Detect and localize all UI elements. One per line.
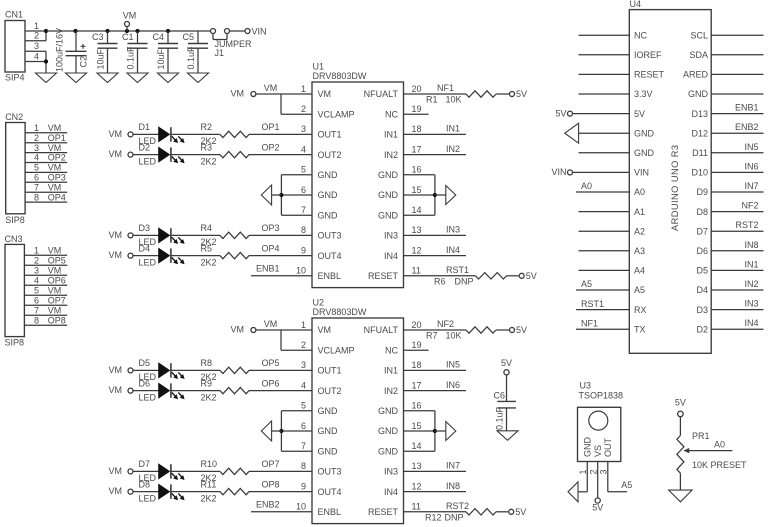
svg-text:2K2: 2K2 (201, 156, 217, 166)
svg-text:GND: GND (318, 190, 339, 200)
svg-text:NF1: NF1 (437, 83, 454, 93)
svg-text:R9: R9 (201, 378, 213, 388)
svg-text:ENBL: ENBL (318, 271, 342, 281)
svg-text:5V: 5V (526, 271, 537, 281)
svg-text:7: 7 (34, 182, 39, 192)
svg-text:D5: D5 (139, 358, 151, 368)
svg-text:OUT3: OUT3 (318, 231, 342, 241)
svg-text:D8: D8 (139, 479, 151, 489)
svg-text:GND: GND (688, 89, 709, 99)
svg-text:1: 1 (34, 246, 39, 256)
svg-text:VIN: VIN (252, 26, 267, 36)
svg-text:NC: NC (385, 109, 398, 119)
svg-text:NF2: NF2 (741, 201, 758, 211)
svg-text:A5: A5 (634, 285, 645, 295)
svg-text:8: 8 (34, 192, 39, 202)
svg-text:OP8: OP8 (48, 316, 66, 326)
svg-text:1: 1 (578, 469, 588, 474)
svg-text:RESET: RESET (368, 271, 399, 281)
svg-text:OP1: OP1 (261, 122, 279, 132)
svg-text:IN5: IN5 (744, 142, 758, 152)
svg-text:A5: A5 (621, 480, 632, 490)
svg-text:D3: D3 (139, 223, 151, 233)
svg-text:0.1uF: 0.1uF (495, 406, 505, 430)
svg-text:10: 10 (296, 502, 306, 512)
svg-text:VM: VM (48, 182, 62, 192)
svg-text:D2: D2 (139, 142, 151, 152)
svg-text:A2: A2 (634, 226, 645, 236)
svg-text:NC: NC (634, 30, 647, 40)
svg-text:OP6: OP6 (48, 276, 66, 286)
svg-text:2: 2 (34, 31, 39, 41)
svg-text:SCL: SCL (690, 30, 708, 40)
svg-text:OUT1: OUT1 (318, 130, 342, 140)
svg-text:12: 12 (412, 481, 422, 491)
svg-text:DNP: DNP (444, 512, 463, 522)
svg-text:R4: R4 (201, 223, 213, 233)
svg-text:1: 1 (34, 21, 39, 31)
svg-text:RST2: RST2 (446, 501, 469, 511)
svg-text:LED: LED (139, 156, 157, 166)
svg-text:OUT4: OUT4 (318, 487, 342, 497)
svg-text:D13: D13 (691, 109, 708, 119)
svg-text:R6: R6 (434, 276, 446, 286)
svg-text:CN1: CN1 (5, 10, 23, 20)
svg-text:C2: C2 (79, 56, 89, 68)
svg-text:C6: C6 (494, 390, 506, 400)
svg-text:GND: GND (378, 426, 399, 436)
svg-text:D7: D7 (139, 459, 151, 469)
svg-text:VM: VM (123, 10, 137, 20)
svg-text:IN4: IN4 (744, 318, 758, 328)
svg-text:LED: LED (139, 392, 157, 402)
svg-text:2K2: 2K2 (201, 392, 217, 402)
svg-text:4: 4 (34, 276, 39, 286)
svg-text:5V: 5V (501, 358, 512, 368)
svg-text:VM: VM (48, 123, 62, 133)
svg-text:5: 5 (301, 401, 306, 411)
svg-text:A0: A0 (581, 181, 592, 191)
svg-text:VM: VM (109, 149, 123, 159)
svg-text:VM: VM (231, 89, 245, 99)
svg-text:ENB2: ENB2 (256, 500, 280, 510)
svg-text:D4: D4 (696, 285, 708, 295)
svg-text:3: 3 (34, 41, 39, 51)
svg-text:4: 4 (301, 144, 306, 154)
svg-text:OP7: OP7 (261, 459, 279, 469)
svg-text:OUT1: OUT1 (318, 366, 342, 376)
svg-text:19: 19 (412, 104, 422, 114)
svg-text:IN2: IN2 (384, 150, 398, 160)
svg-text:4: 4 (34, 51, 39, 61)
svg-text:0.1uF: 0.1uF (186, 46, 196, 70)
svg-text:18: 18 (412, 360, 422, 370)
svg-text:NFUALT: NFUALT (364, 325, 399, 335)
svg-text:GND: GND (378, 406, 399, 416)
svg-text:5V: 5V (634, 109, 645, 119)
svg-text:GND: GND (318, 210, 339, 220)
svg-text:ENB1: ENB1 (256, 264, 280, 274)
svg-text:5V: 5V (515, 507, 526, 517)
svg-text:IN3: IN3 (384, 231, 398, 241)
svg-text:SIP8: SIP8 (5, 338, 25, 348)
svg-text:D2: D2 (696, 324, 708, 334)
svg-text:TSOP1838: TSOP1838 (579, 391, 624, 401)
svg-text:SIP8: SIP8 (5, 215, 25, 225)
svg-text:0.1uF: 0.1uF (125, 46, 135, 70)
svg-text:20: 20 (412, 320, 422, 330)
svg-text:VM: VM (264, 83, 278, 93)
svg-text:GND: GND (634, 148, 655, 158)
svg-text:OUT2: OUT2 (318, 150, 342, 160)
svg-text:4: 4 (301, 380, 306, 390)
svg-text:14: 14 (412, 205, 422, 215)
svg-text:VM: VM (109, 365, 123, 375)
svg-text:11: 11 (412, 502, 421, 512)
svg-text:5V: 5V (592, 503, 603, 513)
svg-text:D10: D10 (691, 168, 708, 178)
svg-text:R11: R11 (201, 479, 217, 489)
svg-text:9: 9 (301, 245, 306, 255)
svg-text:7: 7 (301, 441, 306, 451)
svg-text:D11: D11 (692, 148, 708, 158)
svg-text:11: 11 (412, 266, 421, 276)
svg-text:IN8: IN8 (744, 240, 758, 250)
svg-text:D1: D1 (139, 122, 151, 132)
svg-text:OP5: OP5 (261, 358, 279, 368)
svg-text:5V: 5V (555, 108, 566, 118)
svg-text:PR1: PR1 (692, 431, 710, 441)
svg-text:RST2: RST2 (735, 220, 758, 230)
svg-text:5V: 5V (516, 89, 527, 99)
svg-text:VM: VM (264, 319, 278, 329)
svg-text:GND: GND (378, 170, 399, 180)
svg-text:IN7: IN7 (446, 461, 460, 471)
svg-text:A0: A0 (714, 439, 725, 449)
svg-text:IN7: IN7 (744, 181, 758, 191)
svg-text:D4: D4 (139, 243, 151, 253)
svg-text:OP4: OP4 (48, 192, 66, 202)
svg-text:2: 2 (301, 104, 306, 114)
svg-text:19: 19 (412, 340, 422, 350)
svg-text:GND: GND (318, 170, 339, 180)
svg-text:ENB1: ENB1 (735, 103, 759, 113)
svg-text:DRV8803DW: DRV8803DW (313, 71, 367, 81)
svg-text:NF1: NF1 (581, 318, 598, 328)
svg-text:IN3: IN3 (446, 225, 460, 235)
svg-text:IN4: IN4 (384, 251, 398, 261)
svg-text:C4: C4 (153, 32, 165, 42)
svg-text:VCLAMP: VCLAMP (318, 109, 355, 119)
svg-text:16: 16 (412, 401, 422, 411)
svg-text:NC: NC (385, 345, 398, 355)
svg-text:RX: RX (634, 305, 647, 315)
svg-text:8: 8 (301, 461, 306, 471)
svg-text:IN8: IN8 (446, 481, 460, 491)
svg-text:C3: C3 (92, 32, 104, 42)
svg-text:2K2: 2K2 (201, 257, 217, 267)
svg-text:LED: LED (139, 493, 157, 503)
svg-text:1: 1 (301, 84, 306, 94)
svg-text:IN6: IN6 (446, 380, 460, 390)
svg-text:2: 2 (34, 133, 39, 143)
svg-text:RESET: RESET (634, 70, 665, 80)
svg-text:A3: A3 (634, 246, 645, 256)
svg-text:VM: VM (48, 246, 62, 256)
svg-text:IN1: IN1 (384, 130, 398, 140)
svg-text:IN3: IN3 (744, 299, 758, 309)
svg-text:VM: VM (48, 163, 62, 173)
svg-text:VM: VM (109, 486, 123, 496)
svg-text:10K: 10K (446, 95, 462, 105)
svg-text:D6: D6 (696, 246, 708, 256)
svg-text:4: 4 (34, 153, 39, 163)
svg-text:D6: D6 (139, 378, 151, 388)
svg-text:R12: R12 (425, 512, 442, 522)
svg-text:RESET: RESET (368, 507, 399, 517)
svg-text:5V: 5V (516, 325, 527, 335)
svg-text:OP8: OP8 (261, 479, 279, 489)
svg-text:IN1: IN1 (744, 259, 758, 269)
svg-text:SIP4: SIP4 (5, 73, 25, 83)
svg-text:3: 3 (34, 266, 39, 276)
svg-text:100uF/16V: 100uF/16V (54, 28, 64, 72)
svg-text:5: 5 (301, 165, 306, 175)
svg-text:VM: VM (318, 325, 332, 335)
svg-text:5V: 5V (675, 398, 686, 408)
svg-text:7: 7 (301, 205, 306, 215)
svg-text:8: 8 (301, 225, 306, 235)
svg-text:A4: A4 (634, 266, 645, 276)
svg-text:IN2: IN2 (744, 279, 758, 289)
svg-text:3: 3 (301, 124, 306, 134)
svg-text:2K2: 2K2 (201, 493, 217, 503)
svg-text:DRV8803DW: DRV8803DW (313, 307, 367, 317)
svg-text:OP3: OP3 (261, 223, 279, 233)
svg-text:RST1: RST1 (446, 265, 469, 275)
svg-text:OUT: OUT (603, 438, 613, 458)
svg-text:OP2: OP2 (261, 142, 279, 152)
svg-text:10uF: 10uF (156, 48, 166, 69)
svg-text:D12: D12 (691, 128, 708, 138)
svg-text:VS: VS (593, 445, 603, 457)
svg-text:IN3: IN3 (384, 467, 398, 477)
svg-text:VIN: VIN (634, 168, 649, 178)
svg-text:VM: VM (48, 143, 62, 153)
svg-text:GND: GND (318, 446, 339, 456)
svg-text:1: 1 (34, 123, 39, 133)
svg-text:ARED: ARED (683, 70, 709, 80)
svg-text:2: 2 (34, 256, 39, 266)
svg-text:TX: TX (634, 324, 646, 334)
svg-text:GND: GND (318, 406, 339, 416)
svg-text:GND: GND (378, 210, 399, 220)
svg-text:IN2: IN2 (384, 386, 398, 396)
svg-text:12: 12 (412, 245, 422, 255)
svg-text:7: 7 (34, 306, 39, 316)
svg-text:R5: R5 (201, 243, 213, 253)
svg-text:20: 20 (412, 84, 422, 94)
svg-text:10K: 10K (446, 331, 462, 341)
svg-text:DNP: DNP (454, 276, 473, 286)
svg-text:SDA: SDA (689, 50, 708, 60)
svg-text:VM: VM (109, 250, 123, 260)
svg-text:OP7: OP7 (48, 296, 66, 306)
svg-text:VM: VM (231, 325, 245, 335)
svg-text:3: 3 (34, 143, 39, 153)
svg-text:VIN: VIN (551, 167, 566, 177)
svg-text:U3: U3 (580, 381, 592, 391)
svg-text:13: 13 (412, 225, 422, 235)
svg-text:D7: D7 (696, 226, 708, 236)
svg-text:VM: VM (48, 266, 62, 276)
svg-text:IOREF: IOREF (634, 50, 662, 60)
svg-text:LED: LED (139, 257, 157, 267)
svg-text:16: 16 (412, 165, 422, 175)
svg-text:3: 3 (301, 360, 306, 370)
svg-text:1: 1 (301, 320, 306, 330)
svg-text:5: 5 (34, 286, 39, 296)
svg-text:17: 17 (412, 144, 422, 154)
svg-text:VM: VM (109, 129, 123, 139)
svg-text:R2: R2 (201, 122, 213, 132)
svg-text:ENBL: ENBL (318, 507, 342, 517)
svg-text:VM: VM (109, 385, 123, 395)
svg-text:D9: D9 (696, 187, 708, 197)
svg-text:6: 6 (34, 296, 39, 306)
svg-text:R7: R7 (426, 331, 438, 341)
svg-text:VM: VM (48, 286, 62, 296)
svg-text:U4: U4 (630, 0, 642, 9)
svg-text:5: 5 (34, 163, 39, 173)
svg-text:15: 15 (412, 185, 422, 195)
svg-text:R3: R3 (201, 142, 213, 152)
svg-text:NF2: NF2 (437, 319, 454, 329)
svg-text:ENB2: ENB2 (735, 122, 759, 132)
svg-text:IN5: IN5 (446, 360, 460, 370)
svg-text:2: 2 (301, 340, 306, 350)
svg-text:OP3: OP3 (48, 173, 66, 183)
svg-text:9: 9 (301, 481, 306, 491)
svg-text:A5: A5 (581, 279, 592, 289)
svg-text:IN4: IN4 (384, 487, 398, 497)
svg-text:OP1: OP1 (48, 133, 66, 143)
svg-text:OUT2: OUT2 (318, 386, 342, 396)
svg-text:NFUALT: NFUALT (364, 89, 399, 99)
svg-text:A0: A0 (634, 187, 645, 197)
svg-text:J1: J1 (215, 48, 225, 58)
svg-text:GND: GND (634, 128, 655, 138)
svg-text:GND: GND (378, 446, 399, 456)
svg-text:OP2: OP2 (48, 153, 66, 163)
svg-text:IN1: IN1 (446, 124, 460, 134)
svg-text:CN2: CN2 (5, 112, 23, 122)
svg-text:D8: D8 (696, 207, 708, 217)
svg-text:OP4: OP4 (261, 243, 279, 253)
svg-text:3: 3 (599, 469, 609, 474)
svg-text:3.3V: 3.3V (634, 89, 653, 99)
svg-text:10uF: 10uF (95, 48, 105, 69)
svg-text:R1: R1 (426, 95, 438, 105)
svg-text:R8: R8 (201, 358, 213, 368)
svg-text:VCLAMP: VCLAMP (318, 345, 355, 355)
svg-text:GND: GND (583, 437, 593, 458)
svg-text:VM: VM (318, 89, 332, 99)
svg-text:C1: C1 (122, 32, 134, 42)
svg-text:6: 6 (301, 185, 306, 195)
svg-text:D5: D5 (696, 266, 708, 276)
svg-text:GND: GND (378, 190, 399, 200)
svg-text:OP6: OP6 (261, 378, 279, 388)
svg-text:10: 10 (296, 266, 306, 276)
svg-text:OUT4: OUT4 (318, 251, 342, 261)
svg-text:10K PRESET: 10K PRESET (692, 460, 747, 470)
svg-text:C5: C5 (183, 32, 195, 42)
svg-text:6: 6 (301, 421, 306, 431)
svg-text:OUT3: OUT3 (318, 467, 342, 477)
svg-text:OP5: OP5 (48, 256, 66, 266)
svg-text:ARDUINO UNO R3: ARDUINO UNO R3 (670, 145, 680, 231)
svg-text:2: 2 (588, 469, 598, 474)
svg-text:VM: VM (109, 230, 123, 240)
svg-text:IN1: IN1 (384, 366, 398, 376)
svg-text:R10: R10 (201, 459, 218, 469)
svg-text:GND: GND (318, 426, 339, 436)
svg-text:VM: VM (48, 306, 62, 316)
svg-text:IN2: IN2 (446, 144, 460, 154)
svg-text:8: 8 (34, 316, 39, 326)
svg-text:6: 6 (34, 173, 39, 183)
svg-text:15: 15 (412, 421, 422, 431)
svg-text:D3: D3 (696, 305, 708, 315)
svg-text:A1: A1 (634, 207, 645, 217)
svg-text:IN6: IN6 (744, 161, 758, 171)
svg-text:VM: VM (109, 466, 123, 476)
svg-text:14: 14 (412, 441, 422, 451)
svg-text:CN3: CN3 (5, 234, 23, 244)
svg-text:RST1: RST1 (581, 299, 604, 309)
svg-text:17: 17 (412, 380, 422, 390)
svg-text:13: 13 (412, 461, 422, 471)
svg-text:18: 18 (412, 124, 422, 134)
svg-text:IN4: IN4 (446, 245, 460, 255)
